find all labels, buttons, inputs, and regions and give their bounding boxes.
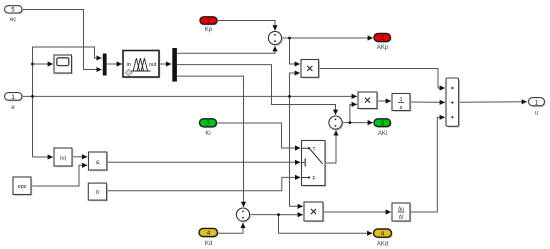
- wire integrator to sum block: [410, 101, 445, 103]
- svg-text:0: 0: [96, 190, 99, 196]
- constant 0: [88, 183, 108, 201]
- wire to abs: [33, 156, 53, 158]
- svg-text:s: s: [400, 105, 403, 111]
- wire sum3 to product D: [250, 214, 303, 216]
- wire switch to sum2: [325, 131, 336, 164]
- wire const0 to switch F: [107, 177, 300, 190]
- svg-text:out: out: [149, 62, 157, 68]
- output port 3 AKi: [374, 119, 392, 137]
- wire product P to sum block: [319, 69, 445, 89]
- svg-text:AKd: AKd: [377, 241, 388, 247]
- junction node on e wire at scope tap: [31, 63, 34, 66]
- junction node on AKi wire: [349, 121, 352, 124]
- svg-text:Kd: Kd: [205, 241, 212, 247]
- svg-text:|u|: |u|: [60, 156, 66, 162]
- wire e main horizontal net: [22, 95, 357, 97]
- svg-text:Ki: Ki: [205, 131, 210, 137]
- sum circle 1 (Kp): [268, 31, 283, 46]
- sum circle 3 (Kd): [236, 208, 251, 222]
- wire abs to relational: [72, 156, 87, 158]
- wire e branch to product P: [290, 73, 300, 96]
- output port 2 AKp: [374, 34, 392, 51]
- wire ec to mux: [22, 10, 102, 70]
- wire eps to relational: [31, 165, 87, 186]
- svg-text:Δt: Δt: [399, 215, 404, 221]
- final sum block: [446, 78, 460, 128]
- output port 4 AKd: [374, 229, 393, 247]
- sum circle 2 (Ki): [329, 116, 344, 131]
- constant eps: [13, 177, 32, 196]
- wire sum1 to AKp: [282, 37, 373, 39]
- wire e branch to product D: [290, 96, 303, 206]
- input port 1 e: [5, 93, 24, 111]
- product block D: [304, 202, 324, 222]
- svg-text:eps: eps: [18, 184, 27, 190]
- derivative du/dt: [392, 203, 411, 222]
- wire e vertical branch left: [33, 47, 102, 157]
- wire fuzzy to demux: [159, 63, 171, 65]
- input port 5 ec: [5, 6, 24, 23]
- input port 4 Kd: [199, 228, 219, 246]
- svg-text:AKp: AKp: [377, 45, 389, 51]
- svg-text:AKi: AKi: [378, 131, 387, 137]
- wire Kp to sum1: [217, 21, 275, 31]
- svg-text:F: F: [313, 176, 316, 182]
- wire Ki to switch T: [217, 123, 301, 148]
- junction node on e wire at port: [31, 95, 34, 98]
- product block P: [301, 60, 320, 79]
- wire sum3 branch to AKd: [279, 215, 373, 234]
- wire demux out2 to sum2: [177, 65, 336, 115]
- wire product D to derivative: [323, 211, 391, 213]
- abs block |u|: [54, 148, 73, 167]
- junction node on e wire mid: [288, 95, 291, 98]
- svg-text:Kp: Kp: [205, 27, 213, 33]
- svg-text:in: in: [127, 62, 131, 68]
- wire product I to integrator: [377, 100, 391, 102]
- switch block: [302, 141, 327, 187]
- integrator 1/s: [392, 94, 411, 112]
- junction node on AKp wire: [288, 37, 291, 40]
- wire relational to switch control: [107, 161, 300, 163]
- wire to scope: [33, 63, 53, 65]
- wire sum1 branch to product P: [290, 38, 300, 64]
- demux: [172, 48, 177, 82]
- wire sum2 branch to product I: [350, 104, 357, 122]
- wire demux out1 to sum1: [177, 46, 275, 53]
- wire demux out3 to sum3: [177, 76, 244, 207]
- fuzzy logic controller block: [123, 51, 160, 79]
- wire mux to fuzzy: [107, 63, 122, 65]
- product block I: [358, 92, 378, 110]
- svg-text:u: u: [535, 111, 538, 117]
- mux: [103, 54, 107, 76]
- svg-text:ec: ec: [10, 17, 16, 23]
- wire Kd to sum3: [218, 223, 244, 233]
- relational operator <=: [89, 152, 109, 171]
- input port 3 Ki: [200, 119, 218, 137]
- scope block: [54, 55, 73, 74]
- wire sum block to u: [459, 101, 527, 103]
- wire sum2 to AKi: [342, 122, 373, 124]
- svg-text:≤: ≤: [96, 159, 100, 166]
- junction node on AKd wire: [277, 213, 280, 216]
- input port 2 Kp: [200, 17, 218, 33]
- wire derivative to sum block: [410, 117, 445, 212]
- output port 1 u: [529, 98, 546, 117]
